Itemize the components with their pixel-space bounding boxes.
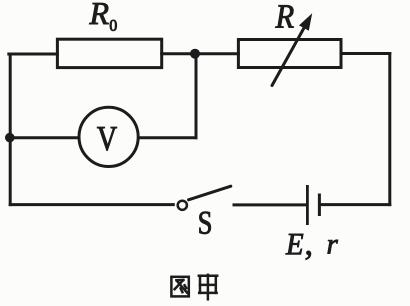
wire: R to top-right corner bbox=[341, 52, 390, 55]
wire: voltmeter branch right bbox=[138, 136, 196, 139]
switch S (pivot circle) bbox=[178, 201, 187, 210]
caption 图甲 (drawn strokes, char 1: 图) bbox=[171, 277, 188, 297]
wire: voltmeter branch left bbox=[10, 136, 79, 139]
label comma bbox=[306, 251, 311, 260]
resistor R (rheostat body) bbox=[238, 40, 341, 68]
label R (rheostat) bbox=[275, 5, 293, 27]
wire: bottom right (battery to corner) bbox=[321, 203, 390, 206]
node A junction dot (between R0 and R) bbox=[190, 49, 200, 59]
resistor R0 bbox=[57, 39, 161, 67]
wire: switch to battery bbox=[234, 203, 306, 206]
switch S (lever) bbox=[189, 186, 231, 200]
label r (internal resistance) bbox=[328, 240, 338, 254]
label E bbox=[286, 234, 303, 254]
label R0: subscript 0 bbox=[110, 20, 117, 31]
battery cell: long plate (positive) bbox=[306, 185, 309, 225]
wire: right vertical bbox=[388, 54, 391, 205]
voltmeter label V bbox=[97, 127, 117, 150]
wire: bottom left to switch bbox=[10, 203, 173, 206]
wire: vertical from node A down to voltmeter branch bbox=[195, 54, 198, 138]
wire: R0 to R bbox=[162, 52, 239, 55]
voltmeter V (meter circle) bbox=[79, 107, 138, 166]
node B junction dot (left wire / voltmeter branch) bbox=[5, 133, 15, 143]
label R0: R bbox=[89, 3, 108, 24]
rheostat arrow (head) bbox=[299, 13, 312, 31]
wire: top-left to R0 bbox=[9, 53, 58, 56]
wire: left vertical bbox=[9, 54, 12, 205]
battery cell: short plate (negative) bbox=[318, 194, 321, 217]
switch label S bbox=[199, 212, 210, 234]
caption 图甲 (char 2: 甲) bbox=[199, 275, 217, 300]
rheostat arrow (shaft) bbox=[272, 27, 305, 86]
